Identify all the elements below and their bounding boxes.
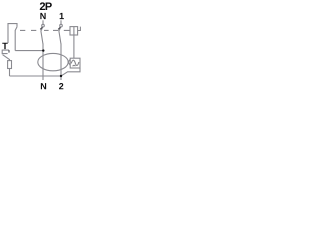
label N (top): [40, 13, 45, 19]
wire: bottom test rail to pole 2: [10, 75, 62, 77]
terminal 1 screw slash: [58, 27, 60, 29]
mechanical link (dashed): [20, 29, 70, 31]
actuator fork tick: [8, 50, 10, 53]
resistor R (test): [8, 61, 12, 69]
trip rod latch to relay: [73, 27, 75, 59]
relay symbol lower arc: [73, 64, 76, 67]
terminal N top stub: [42, 20, 44, 24]
relay symbol sine wave: [71, 60, 79, 65]
wire: resistor to bottom rail: [9, 69, 11, 77]
label 2P: [40, 2, 45, 10]
terminal N screw slash: [40, 27, 42, 29]
wire: test tap rail top-left corner: [8, 24, 17, 43]
test contact blade: [15, 27, 17, 51]
toroid secondary funnel to relay: [68, 59, 70, 65]
terminal 1 top stub: [60, 20, 62, 24]
test button actuator fork: [2, 50, 9, 55]
relay return wire to pole 2: [61, 68, 80, 76]
label T (test button): [2, 43, 7, 49]
latch hook: [78, 27, 81, 31]
toroid sensing CT (ellipse): [38, 53, 68, 70]
label 2 (bottom): [59, 83, 63, 89]
wire: test contact to left pole node: [15, 50, 43, 52]
label 1 (top): [60, 13, 64, 19]
terminal 1 top circle: [60, 24, 63, 27]
pole 2 contact blade and conductor: [59, 27, 61, 80]
node: relay/test to pole2 junction: [60, 75, 62, 77]
label N (bottom): [41, 83, 46, 89]
terminal N top circle: [42, 24, 45, 27]
latch mechanism box: [70, 27, 78, 35]
pole 1 contact blade and conductor: [41, 27, 43, 80]
wire: fork to resistor (diagonal): [3, 55, 10, 61]
trip relay box: [70, 58, 80, 68]
node: test to pole1 junction: [42, 49, 44, 51]
